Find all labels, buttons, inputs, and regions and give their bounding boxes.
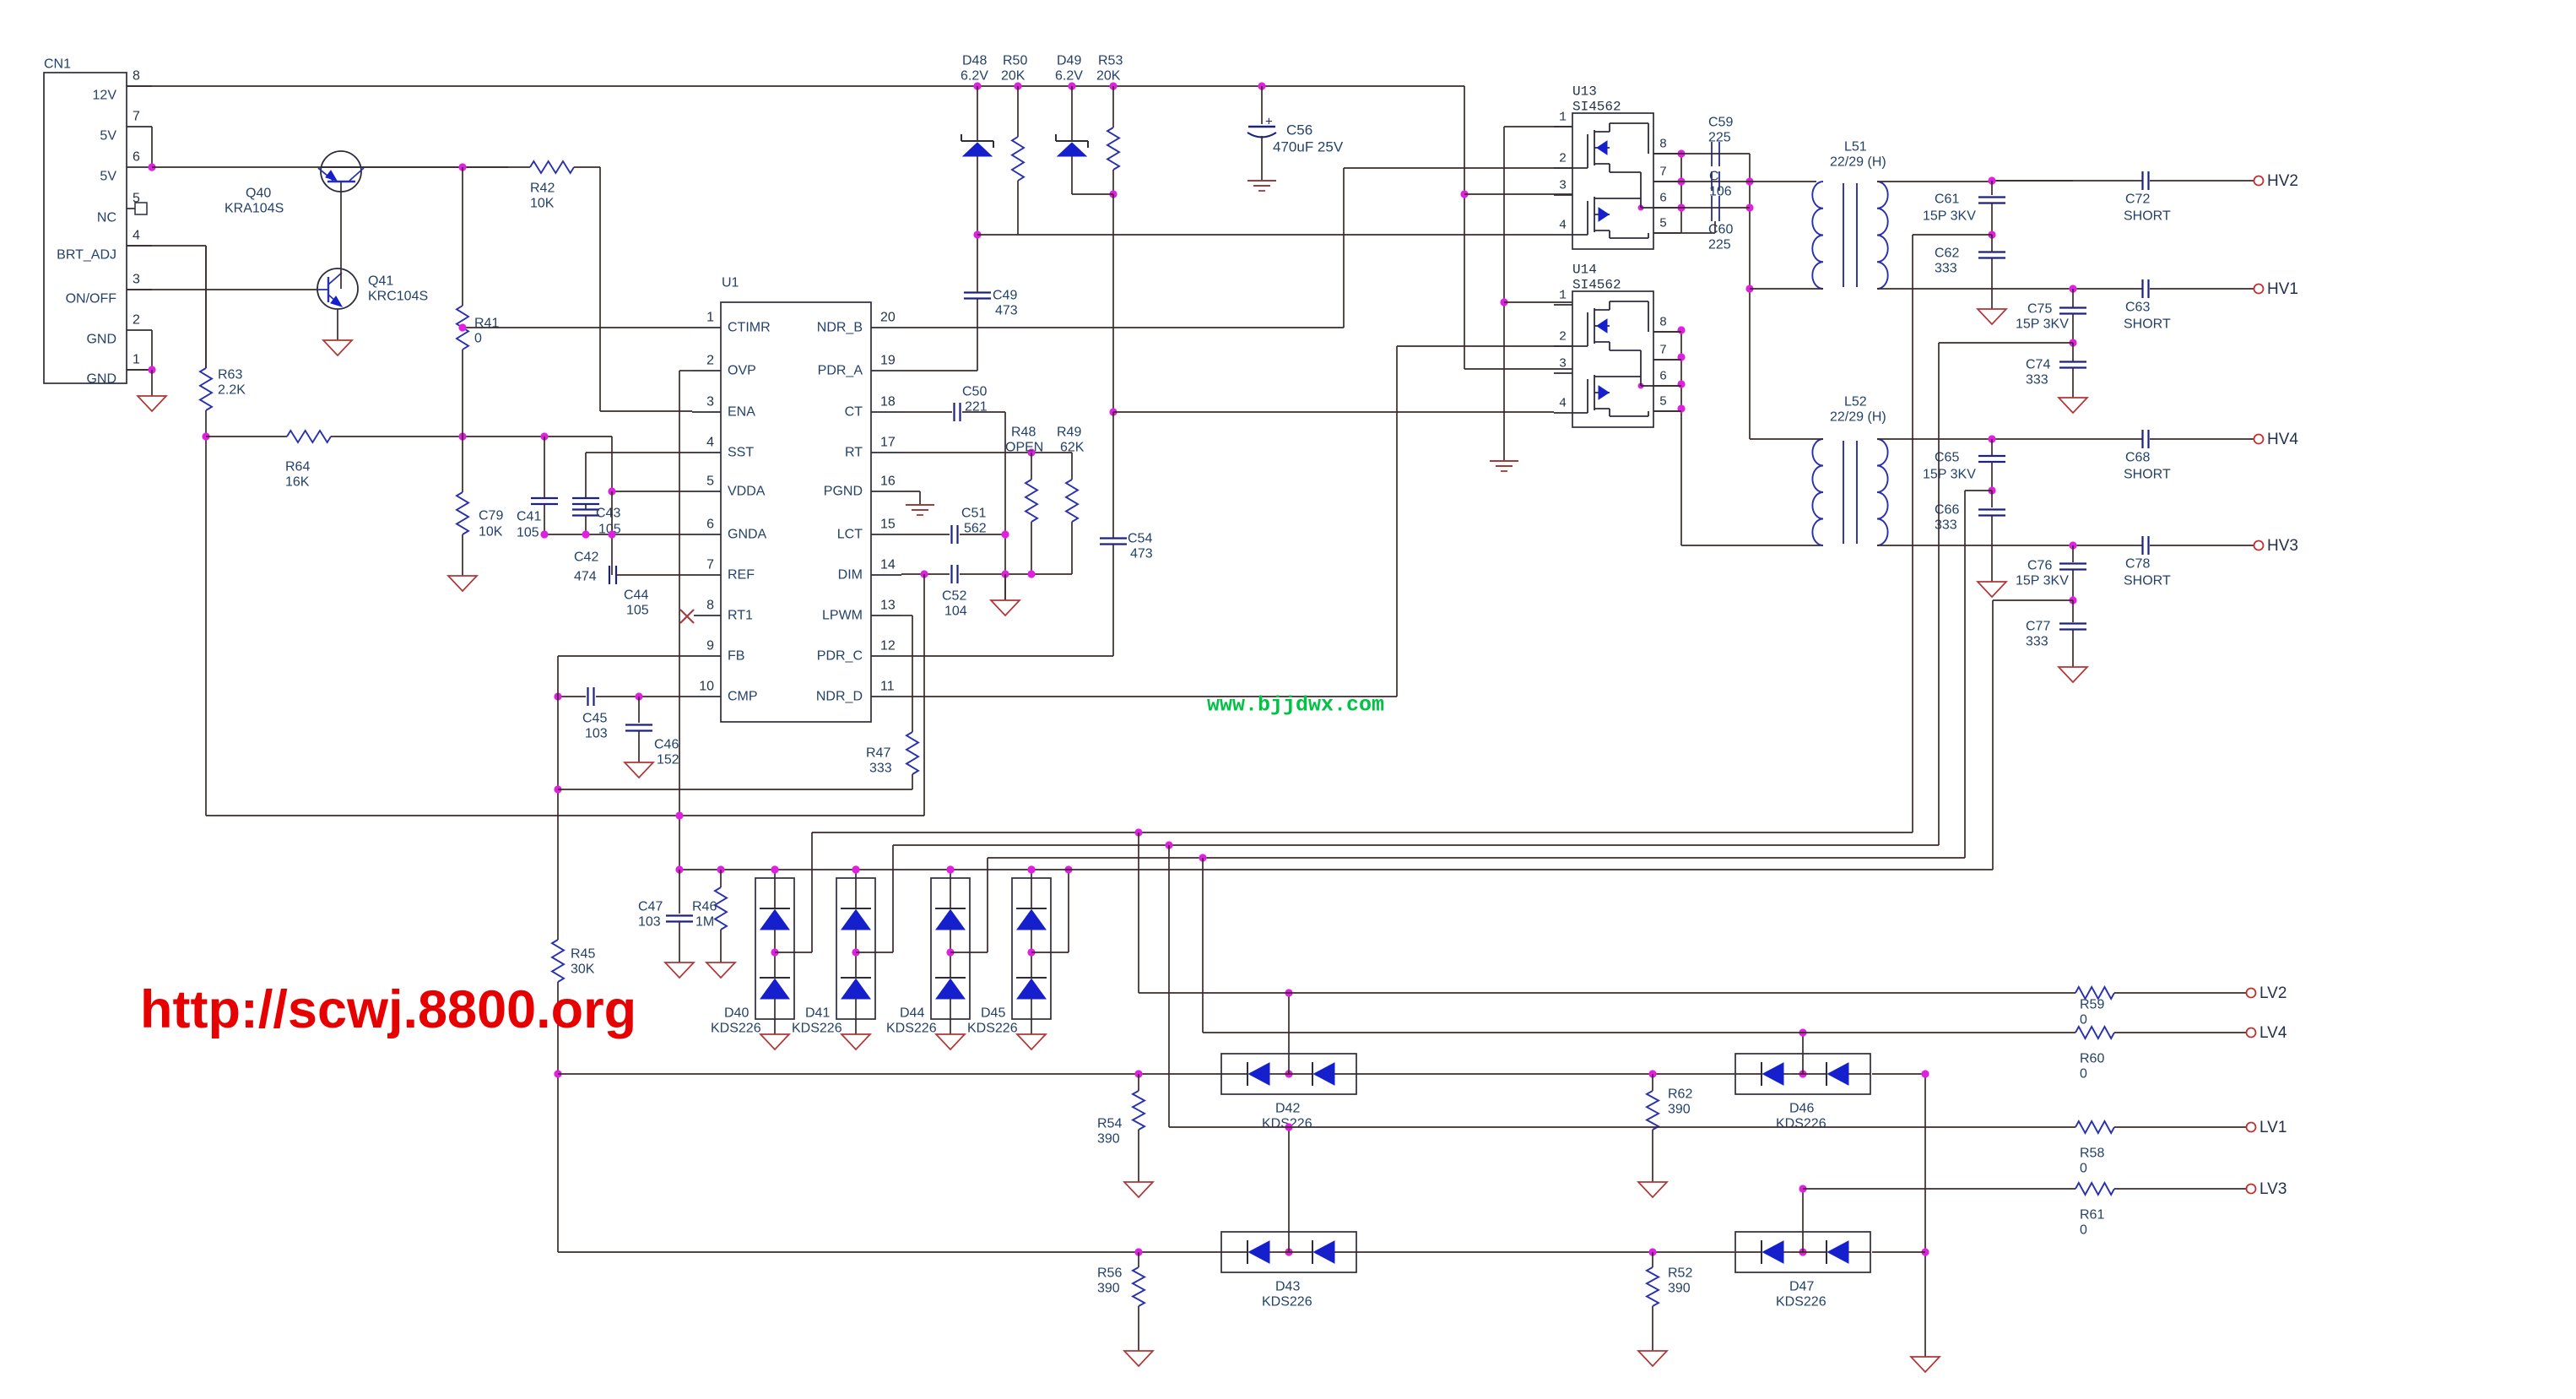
svg-text:R53: R53 [1098,54,1123,68]
svg-text:D44: D44 [900,1006,924,1021]
svg-text:U1: U1 [722,276,739,290]
svg-text:15P 3KV: 15P 3KV [1923,468,1976,482]
svg-text:20K: 20K [1001,69,1026,84]
svg-text:KDS226: KDS226 [1262,1295,1312,1310]
svg-text:333: 333 [2026,635,2048,649]
svg-text:1M: 1M [695,915,714,930]
svg-text:C46: C46 [654,738,679,752]
svg-text:R52: R52 [1668,1266,1692,1281]
svg-text:8: 8 [133,69,140,84]
svg-text:HV2: HV2 [2267,172,2298,190]
svg-text:GNDA: GNDA [728,528,767,542]
svg-text:OVP: OVP [728,364,756,378]
svg-text:C50: C50 [962,385,987,399]
svg-text:R64: R64 [285,460,310,474]
svg-text:3: 3 [1559,179,1567,193]
svg-text:R42: R42 [530,182,555,196]
svg-text:0: 0 [2080,1162,2087,1176]
svg-text:D43: D43 [1275,1280,1300,1294]
svg-text:20: 20 [880,311,896,325]
svg-text:PDR_C: PDR_C [817,649,863,664]
svg-text:6: 6 [706,518,714,532]
svg-text:C51: C51 [961,507,986,521]
svg-text:+: + [1265,115,1273,129]
svg-text:4: 4 [706,436,714,450]
svg-text:2: 2 [1559,330,1567,344]
svg-text:KDS226: KDS226 [1776,1117,1826,1131]
svg-text:20K: 20K [1096,69,1121,84]
svg-text:KRC104S: KRC104S [368,290,428,304]
svg-text:17: 17 [880,436,896,450]
svg-text:5V: 5V [100,129,116,144]
svg-text:225: 225 [1708,238,1731,252]
svg-text:SI4562: SI4562 [1572,100,1621,115]
svg-text:LV4: LV4 [2259,1024,2287,1042]
svg-text:KDS226: KDS226 [711,1022,761,1036]
svg-text:15P 3KV: 15P 3KV [2016,574,2069,588]
svg-text:PDR_A: PDR_A [818,364,863,378]
svg-text:D42: D42 [1275,1102,1300,1116]
svg-text:9: 9 [706,639,714,653]
svg-text:PGND: PGND [824,485,863,499]
svg-text:15: 15 [880,518,896,532]
svg-text:3: 3 [706,395,714,409]
svg-text:6.2V: 6.2V [961,69,988,84]
svg-text:SHORT: SHORT [2124,209,2171,224]
svg-text:333: 333 [1935,262,1957,276]
svg-text:R62: R62 [1668,1087,1692,1102]
svg-text:D46: D46 [1789,1102,1814,1116]
svg-text:15P 3KV: 15P 3KV [1923,209,1976,224]
svg-text:L51: L51 [1844,140,1867,155]
svg-text:Q41: Q41 [368,274,393,289]
svg-text:D45: D45 [981,1006,1005,1021]
svg-text:22/29 (H): 22/29 (H) [1830,410,1886,425]
svg-text:5V: 5V [100,170,116,184]
svg-text:L52: L52 [1844,395,1867,409]
svg-text:http://scwj.8800.org: http://scwj.8800.org [140,980,636,1039]
svg-text:HV3: HV3 [2267,537,2298,555]
svg-text:LV3: LV3 [2259,1180,2286,1198]
svg-text:R59: R59 [2080,998,2104,1012]
svg-text:C42: C42 [574,550,598,565]
svg-text:4: 4 [133,229,140,243]
svg-text:6: 6 [133,150,140,165]
svg-text:562: 562 [964,522,987,536]
svg-text:0: 0 [2080,1223,2087,1238]
svg-text:12V: 12V [93,89,117,103]
svg-text:R45: R45 [571,947,595,962]
svg-text:C: C [1709,170,1719,184]
svg-text:1: 1 [1559,289,1567,303]
svg-text:11: 11 [880,680,895,694]
svg-text:U14: U14 [1572,263,1597,278]
svg-text:8: 8 [1659,138,1667,152]
svg-text:333: 333 [2026,373,2048,388]
svg-text:www.bjjdwx.com: www.bjjdwx.com [1207,693,1384,718]
svg-text:R56: R56 [1097,1266,1122,1281]
svg-text:HV1: HV1 [2267,280,2298,298]
svg-text:333: 333 [869,762,892,776]
svg-text:U13: U13 [1572,84,1597,100]
svg-text:6: 6 [1659,192,1667,206]
svg-text:105: 105 [626,604,649,618]
svg-text:473: 473 [995,304,1018,318]
svg-text:C54: C54 [1128,532,1152,546]
svg-text:C78: C78 [2125,557,2150,572]
svg-text:R63: R63 [218,368,242,382]
svg-text:LPWM: LPWM [822,609,863,623]
svg-text:R58: R58 [2080,1147,2104,1161]
svg-text:C79: C79 [479,509,503,523]
svg-text:19: 19 [880,354,896,368]
svg-text:1: 1 [1559,111,1567,125]
svg-text:KDS226: KDS226 [886,1022,937,1036]
svg-text:2: 2 [706,354,714,368]
svg-text:KDS226: KDS226 [1776,1295,1826,1310]
svg-text:2: 2 [1559,152,1567,166]
svg-text:GND: GND [86,372,116,387]
svg-text:105: 105 [517,526,539,540]
svg-text:1: 1 [133,353,140,367]
svg-text:D41: D41 [805,1006,830,1021]
svg-text:REF: REF [728,568,755,583]
svg-text:FB: FB [728,649,744,664]
svg-text:KRA104S: KRA104S [225,202,284,216]
svg-text:C72: C72 [2125,192,2150,207]
svg-text:D49: D49 [1057,54,1081,68]
svg-text:C61: C61 [1935,192,1959,207]
svg-text:GND: GND [86,333,116,347]
svg-text:C47: C47 [638,900,663,914]
svg-text:R47: R47 [866,746,890,761]
svg-text:221: 221 [965,400,988,415]
svg-text:Q40: Q40 [246,187,271,201]
svg-text:2.2K: 2.2K [218,383,246,398]
svg-text:BRT_ADJ: BRT_ADJ [57,248,116,263]
svg-text:2: 2 [133,313,140,328]
svg-text:D40: D40 [724,1006,749,1021]
svg-text:R46: R46 [692,900,717,914]
svg-text:0: 0 [474,332,482,346]
svg-text:5: 5 [1659,395,1667,409]
svg-text:R60: R60 [2080,1052,2104,1066]
svg-text:C74: C74 [2026,358,2050,372]
svg-text:DIM: DIM [838,568,863,583]
svg-text:LCT: LCT [837,528,863,542]
svg-text:OPEN: OPEN [1005,441,1043,455]
svg-text:12: 12 [880,639,896,653]
svg-text:VDDA: VDDA [728,485,766,499]
svg-text:C76: C76 [2027,559,2052,573]
svg-text:104: 104 [944,605,967,619]
svg-text:6.2V: 6.2V [1055,69,1083,84]
svg-text:SST: SST [728,446,754,460]
svg-text:3: 3 [133,273,140,287]
svg-text:R41: R41 [474,317,499,331]
svg-text:C62: C62 [1935,247,1959,261]
svg-text:C49: C49 [993,289,1017,303]
svg-text:R50: R50 [1003,54,1027,68]
svg-text:R48: R48 [1011,426,1036,440]
svg-text:CN1: CN1 [44,57,71,72]
svg-text:D47: D47 [1789,1280,1814,1294]
svg-text:ON/OFF: ON/OFF [66,292,117,306]
svg-text:R54: R54 [1097,1117,1122,1131]
svg-text:C59: C59 [1708,116,1733,130]
svg-text:C44: C44 [624,588,648,603]
svg-text:474: 474 [574,570,597,584]
svg-text:HV4: HV4 [2267,431,2298,448]
svg-text:SHORT: SHORT [2124,574,2171,588]
svg-text:4: 4 [1559,397,1567,411]
svg-text:CMP: CMP [728,690,758,704]
svg-text:R61: R61 [2080,1208,2104,1223]
svg-text:8: 8 [1659,316,1667,330]
svg-text:D48: D48 [962,54,987,68]
svg-text:C77: C77 [2026,620,2050,634]
svg-text:390: 390 [1097,1282,1120,1296]
svg-text:7: 7 [706,558,714,572]
svg-text:16K: 16K [285,475,310,490]
svg-text:SHORT: SHORT [2124,317,2171,332]
svg-text:CTIMR: CTIMR [728,321,771,335]
svg-text:RT1: RT1 [728,609,753,623]
svg-text:152: 152 [657,753,679,767]
svg-text:390: 390 [1097,1132,1120,1147]
svg-text:KDS226: KDS226 [792,1022,842,1036]
svg-text:5: 5 [133,192,140,206]
svg-text:C63: C63 [2125,301,2150,315]
svg-text:KDS226: KDS226 [967,1022,1018,1036]
svg-text:22/29 (H): 22/29 (H) [1830,155,1886,170]
svg-text:5: 5 [706,474,714,489]
svg-text:6: 6 [1659,370,1667,384]
svg-text:NDR_D: NDR_D [816,690,863,704]
svg-text:C60: C60 [1708,223,1733,237]
svg-text:14: 14 [880,558,896,572]
svg-text:8: 8 [706,599,714,613]
svg-text:473: 473 [1130,547,1153,561]
svg-text:470uF 25V: 470uF 25V [1273,138,1344,155]
svg-text:333: 333 [1935,518,1957,533]
svg-text:18: 18 [880,395,896,409]
svg-text:10K: 10K [479,525,503,540]
svg-text:SHORT: SHORT [2124,468,2171,482]
svg-text:SI4562: SI4562 [1572,278,1621,293]
svg-text:C45: C45 [582,712,607,726]
svg-text:103: 103 [585,727,608,741]
svg-text:13: 13 [880,599,896,613]
svg-text:1: 1 [706,311,714,325]
svg-text:C68: C68 [2125,451,2150,465]
svg-text:0: 0 [2080,1013,2087,1028]
svg-text:C75: C75 [2027,302,2052,317]
svg-text:390: 390 [1668,1103,1691,1117]
svg-text:NDR_B: NDR_B [817,321,863,335]
svg-text:C52: C52 [942,589,966,604]
svg-text:7: 7 [1659,344,1667,358]
svg-text:0: 0 [2080,1067,2087,1082]
svg-text:RT: RT [845,446,863,460]
svg-text:106: 106 [1709,185,1732,199]
svg-text:15P 3KV: 15P 3KV [2016,317,2069,332]
svg-text:7: 7 [1659,165,1667,180]
svg-text:103: 103 [638,915,661,930]
svg-text:R49: R49 [1057,426,1081,440]
svg-text:10K: 10K [530,197,555,211]
svg-text:C41: C41 [517,510,541,524]
svg-text:ENA: ENA [728,405,755,420]
svg-text:LV2: LV2 [2259,984,2286,1002]
svg-text:7: 7 [133,110,140,124]
svg-text:390: 390 [1668,1282,1691,1296]
svg-text:62K: 62K [1060,441,1085,455]
svg-text:CT: CT [845,405,863,420]
svg-text:225: 225 [1708,131,1731,145]
svg-text:4: 4 [1559,219,1567,233]
svg-text:5: 5 [1659,217,1667,231]
svg-text:10: 10 [699,680,714,694]
svg-text:30K: 30K [571,962,595,977]
svg-text:C56: C56 [1286,122,1312,138]
svg-text:16: 16 [880,474,896,489]
svg-text:NC: NC [97,211,116,225]
svg-text:LV1: LV1 [2259,1119,2286,1136]
svg-text:C43: C43 [596,507,620,521]
